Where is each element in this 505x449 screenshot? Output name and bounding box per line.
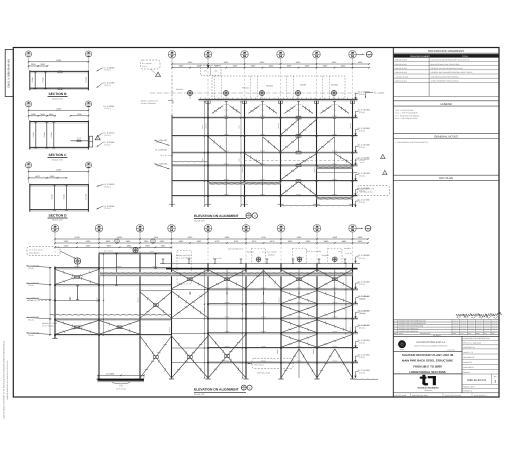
level beam y=318.7 [208,317,358,319]
svg-text:(T.O.S.): (T.O.S.) [359,147,365,149]
svg-text:STEEL STANDARD TYPICAL DETAILS: STEEL STANDARD TYPICAL DETAILS [431,80,459,82]
svg-text:EL. 2.138.65: EL. 2.138.65 [374,92,384,94]
svg-text:IPE300: IPE300 [224,150,229,152]
svg-text:38: 38 [351,52,354,55]
svg-text:IPE300: IPE300 [296,179,301,181]
svg-text:3000: 3000 [40,64,45,66]
section D internal column [54,185,56,210]
svg-text:ISSUED FOR APPROVAL: ISSUED FOR APPROVAL [399,330,419,332]
svg-text:EL. 2.134.300: EL. 2.134.300 [358,109,370,111]
svg-text:1.- FOR GENERAL NOTES SEE SHEE: 1.- FOR GENERAL NOTES SEE SHEET 02. [395,141,429,143]
svg-text:38: 38 [207,52,210,55]
svg-text:(T.O.S.): (T.O.S.) [28,285,34,287]
vent stub circle [74,258,80,264]
svg-text:BENT PL 150x100 TYP.: BENT PL 150x100 TYP. [141,100,158,102]
svg-text:NIOC: NIOC [400,349,404,351]
mid post bay 38/12-11 [263,270,265,334]
svg-text:IPE300: IPE300 [261,331,266,333]
svg-text:38: 38 [27,102,29,104]
svg-text:DWG. N 0380-38-40-001: DWG. N 0380-38-40-001 [8,58,11,87]
company block [461,336,463,393]
svg-text:4440: 4440 [342,241,347,243]
svg-text:EL.+2.137.0: EL.+2.137.0 [104,250,113,252]
svg-text:12.03.09: 12.03.09 [484,326,489,327]
svg-text:(T.O.S.): (T.O.S.) [359,342,365,344]
svg-text:12.03.09: 12.03.09 [492,326,497,327]
svg-text:JOB SPECIFICATION FOR PAINTING: JOB SPECIFICATION FOR PAINTING [431,76,458,78]
svg-text:38: 38 [54,226,57,229]
svg-text:IPE300: IPE300 [332,316,337,318]
svg-text:(T.O.S.): (T.O.S.) [359,130,365,132]
svg-text:38: 38 [98,226,101,229]
svg-text:38: 38 [315,52,318,55]
svg-text:(T.O.S.): (T.O.S.) [359,202,365,204]
svg-text:12.03.09: 12.03.09 [468,331,473,332]
svg-text:SCALE 1/75: SCALE 1/75 [52,159,63,161]
level beam y=181 [172,180,358,182]
svg-text:(T.O.S.): (T.O.S.) [359,94,365,96]
svg-text:PROJ. No. 1 0380-38-40: PROJ. No. 1 0380-38-40 [463,342,481,344]
svg-text:IPE360: IPE360 [33,132,35,137]
node dots top elevation [207,117,209,119]
big inv-V bay 38/10-09 bottom [317,349,335,378]
svg-text:HEA300: HEA300 [85,77,87,83]
left bay beam 285.2 [55,284,100,286]
revision signatures scribble [456,314,465,316]
plot footer strip [393,392,499,394]
svg-text:HEA300: HEA300 [85,194,87,200]
svg-text:38: 38 [248,214,250,216]
svg-text:L100x10: L100x10 [296,104,302,106]
section D overall dimension 11500 [29,171,89,173]
vertical dim string left of col 38/15 [240,102,242,207]
svg-text:12.03.09: 12.03.09 [484,321,489,322]
svg-text:12.03.09: 12.03.09 [484,328,489,329]
svg-text:THIS DRAWING IS PROPERTY OF TR: THIS DRAWING IS PROPERTY OF TR. REPRODUC… [3,341,5,419]
svg-text:EL. 2.117.050: EL. 2.117.050 [358,354,370,356]
svg-text:IPE360: IPE360 [51,132,53,137]
revision table [393,319,499,321]
svg-text:HEB320: HEB320 [137,297,139,303]
svg-text:EL. 2.119.900: EL. 2.119.900 [358,339,370,341]
svg-text:HEB300: HEB300 [278,123,280,129]
slash braces row1 [212,106,223,114]
mid block beam 268.2 [99,267,172,269]
svg-text:05: 05 [248,216,250,218]
section C internal column [53,122,55,148]
wavy grade line right [355,378,378,381]
title alignment bubbles [246,213,251,218]
svg-text:IPE300: IPE300 [225,360,230,362]
svg-text:CONTRACT No.: CONTRACT No. [463,347,475,349]
column x=317 [316,263,318,378]
big X bay 38/13-12 bottom [208,334,246,378]
svg-text:LEGEND: LEGEND [440,103,452,106]
svg-text:IPE300: IPE300 [332,346,337,348]
svg-text:MAIN PIPE RACK CIVIL STRUCTURE: MAIN PIPE RACK CIVIL STRUCTURES [431,64,460,66]
top elevation dimension line tier2 [172,67,369,69]
svg-text:4500: 4500 [288,241,293,243]
grid bubble 38/14 [168,225,176,233]
vertical dim string left of col 38/12 [242,269,244,379]
node dots bottom elevation [207,289,209,291]
mid block beam 290.8 bay 38/15-14 [140,290,172,292]
svg-text:IPE300: IPE300 [260,194,265,196]
svg-text:1: 1 [394,328,395,330]
svg-text:(T.O.S.): (T.O.S.) [105,134,111,136]
svg-text:(B.O.S.): (B.O.S.) [360,313,366,315]
svg-text:2950: 2950 [31,64,36,66]
svg-text:HEB320: HEB320 [96,297,98,303]
svg-text:B.O.S. = BOTTOM OF STEEL: B.O.S. = BOTTOM OF STEEL [395,118,418,120]
vent equipment dashed boxes on rack [252,248,266,263]
left bay X brace [55,269,99,284]
svg-text:16: 16 [207,55,210,58]
dashed leader line [27,299,55,301]
svg-text:IPE300: IPE300 [332,134,337,136]
svg-text:APPROVED FOR CONSTRUCTION: APPROVED FOR CONSTRUCTION [463,338,489,340]
svg-text:3500: 3500 [238,158,240,161]
svg-text:5400: 5400 [126,241,131,243]
mid block beam 285.2 [99,284,172,286]
top elevation columns [171,115,173,207]
svg-text:(T.O.S.): (T.O.S.) [359,372,365,374]
level beam y=304.2 [208,303,358,305]
alternating diagonals bay 38/10-09 [317,291,353,304]
extra diag bay4 row3 [317,137,335,152]
svg-text:3900: 3900 [144,241,149,243]
svg-text:(TYP. U.O.N.): (TYP. U.O.N.) [116,388,126,390]
grid bubble 38/13 [313,51,321,59]
svg-text:ISSUED FOR CONSTRUCTION: ISSUED FOR CONSTRUCTION [399,325,424,327]
revision triangle right 2 [383,170,388,174]
svg-text:4500: 4500 [251,65,256,67]
svg-text:9000: 9000 [188,62,193,64]
vertical dim string left of col 38/13 [204,269,206,379]
note box dashed top-left [141,60,161,69]
svg-text:4: 4 [394,320,395,322]
svg-text:HEB300: HEB300 [314,167,316,173]
svg-text:15: 15 [139,229,142,232]
svg-text:8880: 8880 [333,237,338,239]
title-block panel divider [392,48,394,398]
elevation marker EL. 2.125.600 [355,312,357,317]
svg-text:EL. 2.132.10: EL. 2.132.10 [104,132,115,134]
leader to note box [248,363,253,365]
svg-text:EL. 2.129.90: EL. 2.129.90 [359,296,369,298]
svg-text:38: 38 [87,163,89,165]
extra diag bay2 row4 [245,153,263,164]
revision triangle right 1 [381,154,386,158]
svg-text:3900: 3900 [145,245,150,247]
svg-text:(T.O.S.): (T.O.S.) [142,66,148,68]
svg-text:DATE: DATE [399,333,403,335]
svg-text:CAD FILE NAME: CAD FILE NAME [394,395,406,397]
column break marks [169,203,175,206]
svg-text:(T.O.S.): (T.O.S.) [105,208,111,210]
svg-text:8750: 8750 [261,237,266,239]
svg-text:IPE300: IPE300 [224,194,229,196]
svg-text:0380-38-40-001: 0380-38-40-001 [467,379,486,382]
svg-text:EL. 2.138.650: EL. 2.138.650 [358,91,370,93]
svg-text:(SOUTH PARS GAS COMPLEX PROJEC: (SOUTH PARS GAS COMPLEX PROJECT) [414,345,447,347]
svg-text:PK38102: PK38102 [268,254,275,256]
elevation marker EL. 2.114.000 [355,372,357,377]
svg-text:3 PL 10x150: 3 PL 10x150 [360,159,369,161]
vertical dim string left of col 38/16 [204,102,206,207]
bay 38/14 levels [172,289,209,291]
svg-text:38: 38 [351,226,354,229]
level beam y=362.6 [208,361,358,363]
section B beams and columns [30,70,89,72]
svg-text:(T.O.S.): (T.O.S.) [359,112,365,114]
svg-text:IPE300: IPE300 [225,346,230,348]
svg-text:12.03.09: 12.03.09 [468,321,473,322]
column x=171.5 [171,254,173,379]
svg-text:L100x10: L100x10 [260,104,266,106]
svg-text:IPE360: IPE360 [44,132,46,137]
svg-text:IPE300: IPE300 [224,179,229,181]
svg-text:3900: 3900 [358,241,363,243]
diag bay4 row4 [335,153,353,164]
svg-text:9000: 9000 [332,62,337,64]
svg-text:EL. 2.130.800: EL. 2.130.800 [358,127,370,129]
svg-text:PK38101: PK38101 [176,89,183,91]
svg-text:10300: 10300 [117,237,123,239]
pipe support line [160,262,360,264]
grid bubble 38/10 [313,225,321,233]
svg-text:(T.O.S.): (T.O.S.) [359,327,365,329]
svg-text:12.03.09: 12.03.09 [468,326,473,327]
svg-text:38: 38 [171,52,174,55]
svg-text:TITLE: TITLE [462,55,468,57]
level beam y=136 [172,135,358,137]
title block right cells [462,339,499,341]
svg-text:L100x10: L100x10 [223,104,229,106]
svg-text:PLOT SCALE 1:1: PLOT SCALE 1:1 [474,395,487,397]
elevation marker EL. 2.122.300 [355,175,357,180]
svg-text:ELEVATION ON ALIGNMENT: ELEVATION ON ALIGNMENT [194,388,239,392]
svg-text:11500: 11500 [56,59,62,61]
note box dashed right [358,186,390,196]
svg-text:5500: 5500 [64,245,69,247]
svg-text:3: 3 [494,380,496,384]
svg-text:EL. 2.132.000: EL. 2.132.000 [155,149,167,151]
grating band mid bays level6 [208,182,281,185]
diag bay1 row3 [208,137,226,152]
grid bubble 38/12 [242,225,250,233]
svg-text:38: 38 [207,226,210,229]
svg-text:T.O.S. EL 2.137.00: T.O.S. EL 2.137.00 [29,249,43,251]
elevation marker EL. 2.117.050 [355,356,357,361]
svg-text:GENERAL NOTES: GENERAL NOTES [434,135,458,138]
svg-text:17: 17 [171,55,174,58]
svg-text:10500: 10500 [204,308,206,313]
left margin drawing-number label box [5,50,13,97]
mid block top beam [99,252,172,254]
svg-text:4375: 4375 [270,241,275,243]
general notes box [393,132,499,134]
elevation marker EL. 2.122.750 [355,327,357,332]
svg-text:(T.O.S.): (T.O.S.) [359,357,365,359]
svg-text:EL.+2.135.5: EL.+2.135.5 [213,258,222,260]
svg-text:PLOT DATE 12-03-09: PLOT DATE 12-03-09 [445,395,461,397]
svg-text:15: 15 [243,55,246,58]
svg-text:10: 10 [316,229,319,232]
svg-text:IPE300: IPE300 [332,150,337,152]
column x=352.5 [352,263,354,378]
svg-text:3500: 3500 [238,125,240,128]
svg-text:IPE330: IPE330 [117,266,122,268]
svg-text:38: 38 [170,226,173,229]
svg-text:T.O.S. 2.136.8: T.O.S. 2.136.8 [130,248,140,250]
svg-text:PK38103: PK38103 [322,255,329,257]
revision triangle top [156,72,161,76]
svg-text:17: 17 [54,229,57,232]
section B grid bubble 38/17 [25,51,31,57]
base plate detail [98,374,144,376]
svg-text:17: 17 [27,166,29,168]
pipe centreline [150,92,357,94]
mid block beam 335 [99,334,172,336]
svg-text:IPE300: IPE300 [224,163,229,165]
diag bay3 row3 [281,137,299,152]
svg-text:HEB300: HEB300 [205,123,207,129]
svg-text:IPE300: IPE300 [261,302,266,304]
section B overall dimension 11500 [29,61,89,63]
svg-text:A: A [157,74,158,76]
svg-text:EL. 2.117.500: EL. 2.117.500 [358,199,370,201]
svg-text:4900: 4900 [107,245,112,247]
column x=208 [207,263,209,378]
svg-text:IPE300: IPE300 [261,360,266,362]
break wavy lines [172,160,208,163]
svg-text:5500: 5500 [64,241,69,243]
svg-text:EL. 2.138.65: EL. 2.138.65 [104,105,115,107]
svg-text:FORMAT A1: FORMAT A1 [463,390,472,392]
svg-text:13: 13 [315,55,318,58]
level beam y=333.3 [208,332,358,334]
top elevation dimension line tier1 [172,63,369,65]
svg-text:DESIGNED TR: DESIGNED TR [463,357,474,359]
grating band right bay level7 [317,197,353,200]
svg-text:PL.10: PL.10 [224,109,228,111]
grid bubble 38/16 [204,51,212,59]
svg-text:(T.O.S.): (T.O.S.) [28,319,34,321]
big X brace bay 38/14-13 bottom [172,336,209,378]
svg-text:IPE300: IPE300 [224,134,229,136]
svg-text:11500: 11500 [56,108,62,110]
svg-text:ELEVATION ON ALIGNMENT: ELEVATION ON ALIGNMENT [194,214,239,218]
svg-text:9000: 9000 [188,237,193,239]
big inv-V bay3 row6 [281,182,299,196]
column x=140 [139,254,141,379]
svg-text:12.03.09: 12.03.09 [461,321,466,322]
top elevation main top beam [199,98,358,100]
svg-text:HEB320: HEB320 [169,327,171,333]
svg-text:11500: 11500 [56,169,62,171]
match circles on dimension line [115,239,119,243]
svg-text:H.P. = HIGH POINT OF PAVIN: H.P. = HIGH POINT OF PAVING [395,115,419,117]
svg-text:T.O.S. EL. 2.136.800: T.O.S. EL. 2.136.800 [306,251,321,253]
svg-text:(T.O.S.): (T.O.S.) [28,267,34,269]
svg-text:GENERAL U/G AND FOUNDATION LAY: GENERAL U/G AND FOUNDATION LAYOUT [431,68,463,70]
svg-text:4500: 4500 [287,65,292,67]
svg-text:3900: 3900 [161,245,166,247]
svg-text:11000: 11000 [74,237,80,239]
equipment dashed outline above rack [177,251,191,285]
svg-text:(T.O.S.): (T.O.S.) [28,334,34,336]
svg-text:4900: 4900 [127,245,132,247]
svg-text:5500: 5500 [86,241,91,243]
section D beams and columns [30,184,89,186]
svg-text:SCALE 1/75: SCALE 1/75 [194,394,205,396]
bay 38/14 X brace upper [172,291,209,318]
svg-text:4440: 4440 [324,241,329,243]
svg-text:38: 38 [280,226,283,229]
svg-text:EL. 2.128.90: EL. 2.128.90 [104,205,115,207]
svg-text:IPE300: IPE300 [225,331,230,333]
svg-text:14: 14 [279,55,282,58]
svg-text:10500: 10500 [242,308,244,313]
svg-text:SCALE 1/75: SCALE 1/75 [52,219,63,221]
svg-text:H.P. OF PAVING: H.P. OF PAVING [42,325,54,327]
svg-text:GENERAL BOLT/CONCRETE/GRATING: GENERAL BOLT/CONCRETE/GRATING SPECIF. NO… [431,72,473,74]
svg-text:EL. 2.127.300: EL. 2.127.300 [358,144,370,146]
svg-text:12.03.09: 12.03.09 [461,323,466,324]
svg-text:(T.O.S.): (T.O.S.) [105,144,111,146]
svg-text:T.O.S. EL. 2.131.5: T.O.S. EL. 2.131.5 [160,155,173,157]
section C right bracket [89,136,92,147]
svg-text:IPE300: IPE300 [297,346,302,348]
column x=281 [280,263,282,378]
grid bubble continuation arrow bottom [357,227,363,229]
svg-text:12.03.09: 12.03.09 [476,323,481,324]
svg-text:HEB300: HEB300 [242,167,244,173]
svg-text:DWN: DWN [476,333,479,335]
column 38/17 foot [52,337,57,339]
svg-text:12.03.09: 12.03.09 [453,326,458,327]
svg-text:12: 12 [245,229,248,232]
svg-text:12.03.09: 12.03.09 [461,331,466,332]
svg-text:IPE300: IPE300 [261,346,266,348]
svg-text:38: 38 [367,228,369,230]
svg-text:12.03.09: 12.03.09 [476,326,481,327]
svg-text:12.03.09: 12.03.09 [453,328,458,329]
svg-text:EL. 2.124.800: EL. 2.124.800 [358,157,370,159]
svg-text:38: 38 [139,226,142,229]
grid bubble 38/14 [277,51,285,59]
svg-text:IPE300: IPE300 [297,331,302,333]
svg-text:38: 38 [27,163,29,165]
svg-text:12.03.09: 12.03.09 [468,328,473,329]
svg-text:PK38104: PK38104 [344,248,351,250]
svg-text:FROM 38/17 TO 38/09: FROM 38/17 TO 38/09 [413,365,442,368]
svg-text:4900: 4900 [106,241,111,243]
svg-text:(HIGH POINT): (HIGH POINT) [29,252,39,254]
svg-text:APP: APP [468,333,471,335]
svg-text:0380-38-40-101: 0380-38-40-101 [395,68,407,70]
svg-text:SECTION D: SECTION D [49,214,67,218]
svg-text:KEY PLAN: KEY PLAN [439,177,453,180]
svg-text:4500: 4500 [323,65,328,67]
svg-text:(T.O.S.): (T.O.S.) [105,108,111,110]
svg-text:4500: 4500 [179,241,184,243]
svg-text:(T.O.S.): (T.O.S.) [359,175,365,177]
svg-text:SCALE 1/75: SCALE 1/75 [194,220,205,222]
svg-text:PL.10: PL.10 [261,109,265,111]
connection plates bay3 [296,117,301,119]
